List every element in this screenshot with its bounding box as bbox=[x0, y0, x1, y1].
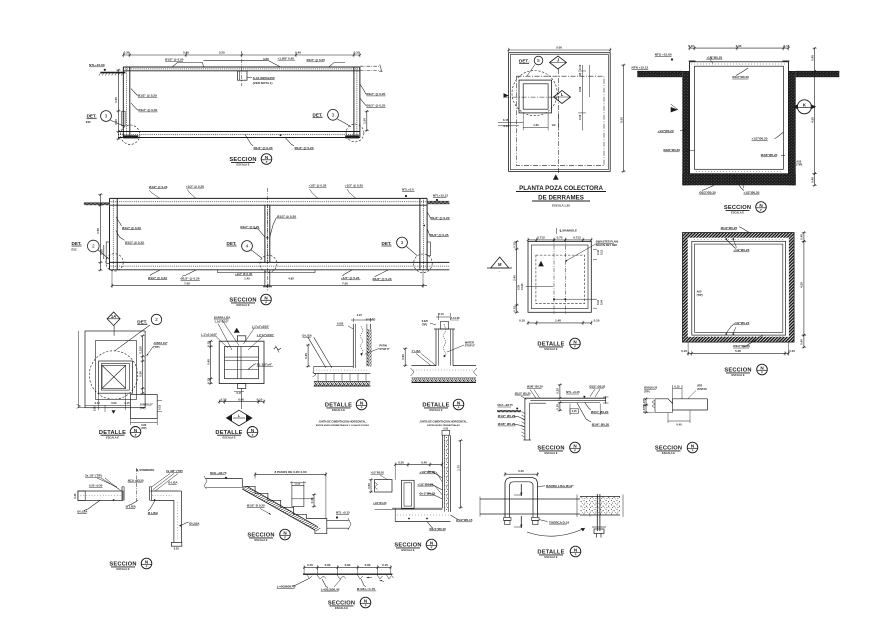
svg-text:Ø1/4" Ø0.20: Ø1/4" Ø0.20 bbox=[592, 422, 610, 426]
svg-text:0.15: 0.15 bbox=[674, 384, 680, 388]
svg-text:PLANTA POZA COLECTORA: PLANTA POZA COLECTORA bbox=[519, 185, 603, 192]
S16 staple nuts bbox=[504, 518, 512, 521]
S5 top dim bbox=[528, 239, 591, 241]
svg-text:BARRA LISA Ø1/2": BARRA LISA Ø1/2" bbox=[546, 484, 574, 488]
svg-text:ESCALA E: ESCALA E bbox=[254, 538, 267, 542]
svg-text:ESC: ESC bbox=[86, 121, 91, 124]
svg-text:+1/2"Ø0.20: +1/2"Ø0.20 bbox=[733, 248, 749, 252]
svg-text:Ø1/2" Ø0.20: Ø1/2" Ø0.20 bbox=[589, 384, 605, 388]
S15 left dims bbox=[645, 399, 647, 405]
svg-text:ENTRE MURO PERIMETRALES: ENTRE MURO PERIMETRALES bbox=[427, 424, 460, 427]
svg-text:0.30: 0.30 bbox=[517, 284, 521, 290]
svg-text:ESCALA E: ESCALA E bbox=[236, 303, 249, 307]
svg-text:(TIP): (TIP) bbox=[697, 293, 703, 297]
svg-text:ESCALA E: ESCALA E bbox=[662, 451, 675, 455]
svg-text:L: L bbox=[561, 92, 564, 97]
svg-text:A 14.05: A 14.05 bbox=[451, 316, 461, 320]
S8 right label PL bbox=[248, 364, 256, 370]
svg-text:1.20: 1.20 bbox=[533, 123, 539, 127]
svg-text:0.15: 0.15 bbox=[95, 401, 101, 405]
svg-text:0.15: 0.15 bbox=[357, 313, 363, 317]
svg-text:A05: A05 bbox=[697, 290, 702, 294]
S2 top slab bbox=[110, 197, 428, 199]
S4 right dim main bbox=[814, 71, 816, 173]
svg-text:+1/2"Ø0.25: +1/2"Ø0.25 bbox=[417, 482, 433, 486]
svg-text:Ø1/2" Ø0.25: Ø1/2" Ø0.25 bbox=[498, 414, 516, 418]
planta inner dash-dot square bbox=[517, 76, 605, 166]
svg-text:8 PASOS DE 0.20=1.60: 8 PASOS DE 0.20=1.60 bbox=[274, 470, 306, 474]
svg-text:+1/2" @ 0.20: +1/2" @ 0.20 bbox=[341, 276, 360, 280]
S16 inner arrows bbox=[520, 484, 522, 496]
svg-text:+1/2"Ø0.20: +1/2"Ø0.20 bbox=[658, 129, 674, 133]
S4 bottom rebar dots bbox=[734, 175, 736, 177]
S5 interior marker bbox=[538, 261, 544, 267]
S2 bottom slab bbox=[110, 261, 450, 263]
svg-text:1.40: 1.40 bbox=[555, 319, 561, 323]
svg-text:0.15: 0.15 bbox=[158, 404, 162, 410]
svg-text:+1/2"Ø0.20: +1/2"Ø0.20 bbox=[419, 470, 435, 474]
S11 right wall down bbox=[173, 500, 175, 542]
S9 slab-ground ticks bbox=[317, 374, 319, 382]
S10 wall cap bbox=[434, 328, 455, 330]
svg-text:0.60: 0.60 bbox=[325, 563, 331, 567]
S10 waterstop zigzag bbox=[443, 324, 446, 358]
svg-text:SEGUN DET. REF: SEGUN DET. REF bbox=[596, 243, 618, 247]
svg-text:7.05: 7.05 bbox=[342, 281, 348, 285]
svg-text:+1/2" @ 0.20: +1/2" @ 0.20 bbox=[186, 184, 204, 188]
svg-text:0.10: 0.10 bbox=[578, 64, 582, 70]
svg-text:Ø LISA: Ø LISA bbox=[168, 481, 177, 485]
svg-text:1.45: 1.45 bbox=[244, 276, 250, 280]
svg-text:DET.: DET. bbox=[313, 112, 323, 117]
svg-text:4: 4 bbox=[246, 244, 249, 250]
S11 right curb bbox=[148, 487, 150, 501]
svg-text:0.15: 0.15 bbox=[688, 44, 694, 48]
svg-text:0.10: 0.10 bbox=[438, 312, 444, 316]
svg-text:0.45: 0.45 bbox=[810, 55, 814, 61]
S12 top landing bbox=[206, 478, 243, 480]
svg-text:7.05: 7.05 bbox=[184, 281, 190, 285]
S9 waterstop zigzag bbox=[360, 326, 363, 357]
svg-text:+1/2" @ 0.20: +1/2" @ 0.20 bbox=[345, 184, 363, 188]
S16 staple inner bbox=[510, 482, 534, 518]
section marker diamond J bbox=[550, 56, 567, 69]
S4 top lining dots bbox=[691, 63, 787, 65]
S7 bottom-right attachment bbox=[131, 394, 158, 418]
S10 wall bbox=[435, 329, 437, 366]
S11 lisa leaders bottom bbox=[128, 500, 138, 505]
svg-text:0.25: 0.25 bbox=[556, 404, 560, 410]
svg-text:L 2"x2"x3/16": L 2"x2"x3/16" bbox=[257, 333, 275, 337]
S7 bottom attachment dim bbox=[131, 421, 158, 423]
svg-text:5.00: 5.00 bbox=[735, 349, 741, 353]
svg-text:5.40: 5.40 bbox=[183, 51, 189, 55]
S4 bottom slab hatch bbox=[682, 174, 795, 186]
S15 bottom dim bbox=[668, 420, 690, 422]
svg-text:0.20: 0.20 bbox=[174, 547, 180, 551]
svg-text:Ø1/2" Ø 0.20: Ø1/2" Ø 0.20 bbox=[247, 504, 265, 508]
svg-text:ESCALA E: ESCALA E bbox=[544, 347, 557, 351]
S7 left break line bbox=[78, 331, 80, 408]
svg-text:2x 1/2" (TIP): 2x 1/2" (TIP) bbox=[85, 474, 102, 478]
S12 sloped slab bbox=[247, 486, 318, 526]
svg-text:NTO +15.60: NTO +15.60 bbox=[655, 53, 672, 57]
svg-text:PL 3/8"x4": PL 3/8"x4" bbox=[257, 362, 273, 366]
seccion S1 top dimension line bbox=[123, 54, 360, 56]
svg-text:1.50: 1.50 bbox=[114, 97, 118, 103]
S1 lean concrete block right bbox=[345, 135, 359, 138]
section marker M triangle bbox=[491, 257, 509, 268]
svg-text:NCA +93.75: NCA +93.75 bbox=[498, 403, 514, 407]
S2 left vertical dim bbox=[99, 195, 101, 271]
S8 bottom dim bbox=[219, 401, 264, 403]
svg-text:0.45: 0.45 bbox=[304, 353, 308, 359]
S5 left dim bbox=[516, 242, 518, 313]
S13 rebar labels bbox=[428, 471, 442, 478]
svg-text:3.35: 3.35 bbox=[736, 44, 742, 48]
svg-text:0.15: 0.15 bbox=[207, 341, 211, 347]
S1 right wall rebar leader 1 bbox=[360, 84, 366, 94]
S1 bottom slab bbox=[118, 131, 360, 133]
svg-text:3.20: 3.20 bbox=[219, 51, 225, 55]
svg-text:ESCALA E: ESCALA E bbox=[429, 408, 442, 412]
svg-text:0.15: 0.15 bbox=[221, 397, 227, 401]
S14 left wall labels bbox=[514, 416, 525, 420]
svg-text:BARRA LISA: BARRA LISA bbox=[214, 315, 231, 319]
svg-text:+1/2"Ø0.20: +1/2"Ø0.20 bbox=[743, 190, 759, 194]
svg-text:Ø1/2" @ 0.20: Ø1/2" @ 0.20 bbox=[277, 214, 296, 218]
svg-text:Ø LISA: Ø LISA bbox=[77, 510, 88, 514]
S1 right vertical dim bbox=[366, 111, 368, 130]
S17 dim line bbox=[304, 566, 391, 568]
S4 right wall rebar labels bbox=[775, 132, 784, 139]
S1 dash-dot extension right bbox=[360, 65, 381, 67]
svg-text:A1/2"Ø0.15: A1/2"Ø0.15 bbox=[456, 518, 473, 522]
S14 ground left bbox=[497, 410, 521, 412]
svg-text:0.20: 0.20 bbox=[114, 119, 118, 125]
svg-text:DET.: DET. bbox=[382, 241, 392, 246]
S13 top nub bbox=[442, 430, 450, 435]
svg-text:1.50: 1.50 bbox=[363, 118, 367, 124]
S1 nozzle box bbox=[238, 71, 248, 80]
svg-text:Ø1/2" @ 0.20: Ø1/2" @ 0.20 bbox=[181, 277, 200, 281]
S6 hatched ring bbox=[683, 233, 795, 238]
S13 bottom slab bbox=[394, 508, 396, 521]
S6 right dim bbox=[803, 233, 805, 242]
S12 column stub bbox=[292, 485, 304, 506]
S17 hooks below bbox=[307, 575, 312, 579]
svg-text:2.40: 2.40 bbox=[513, 275, 517, 281]
section marker K bbox=[797, 100, 811, 114]
section marker diamond L bbox=[554, 91, 571, 104]
svg-text:(TIP): (TIP) bbox=[141, 427, 147, 430]
svg-text:Ø1/2" @ 0.20: Ø1/2" @ 0.20 bbox=[138, 93, 157, 97]
S8 right break symbol bbox=[274, 347, 281, 350]
S10 slab bbox=[412, 365, 437, 367]
S6 lining dot rows bbox=[694, 239, 784, 241]
svg-text:ESCALA E: ESCALA E bbox=[106, 435, 119, 439]
S1 right wall bbox=[353, 67, 355, 138]
S2 dashed circle right bbox=[414, 254, 433, 273]
S7 double square bbox=[99, 361, 133, 393]
svg-text:0.712: 0.712 bbox=[537, 236, 545, 240]
svg-text:0.45: 0.45 bbox=[310, 497, 314, 503]
svg-text:0.025: 0.025 bbox=[337, 323, 344, 326]
svg-text:JUNTA 1/2": JUNTA 1/2" bbox=[154, 341, 169, 345]
svg-text:5: 5 bbox=[537, 58, 540, 64]
svg-text:0.30: 0.30 bbox=[124, 51, 130, 55]
S12 slope hatch bbox=[242, 487, 247, 490]
svg-text:Ø1/2" @ 0.20: Ø1/2" @ 0.20 bbox=[165, 58, 184, 62]
svg-text:Ø1/2" @ 0.20: Ø1/2" @ 0.20 bbox=[295, 146, 314, 150]
svg-text:2: 2 bbox=[155, 317, 158, 323]
svg-text:0.40: 0.40 bbox=[596, 249, 600, 255]
svg-text:0.075: 0.075 bbox=[642, 398, 646, 406]
svg-text:0.15: 0.15 bbox=[784, 44, 790, 48]
S14 left wall bbox=[524, 398, 526, 440]
svg-text:Ø1/2" @ 0.25: Ø1/2" @ 0.25 bbox=[125, 240, 144, 244]
svg-text:0.15: 0.15 bbox=[382, 563, 388, 567]
svg-text:0.15: 0.15 bbox=[307, 563, 313, 567]
svg-text:Ø3/8"Ø0.20: Ø3/8"Ø0.20 bbox=[663, 148, 680, 152]
svg-text:ESCALA E: ESCALA E bbox=[731, 211, 744, 215]
S7 dashed circle bbox=[89, 351, 137, 399]
svg-text:NTL +0.15: NTL +0.15 bbox=[336, 511, 350, 515]
S1 lean concrete block left bbox=[123, 135, 138, 138]
svg-text:+1/2" @ 0.20: +1/2" @ 0.20 bbox=[309, 184, 327, 188]
S8 center line to diamond bbox=[240, 388, 242, 409]
planta top dim bbox=[509, 49, 611, 51]
svg-text:0.05: 0.05 bbox=[94, 406, 97, 411]
S2 left wall rebar leaders bbox=[116, 217, 122, 226]
svg-text:Ø1/2" @ 0.20: Ø1/2" @ 0.20 bbox=[148, 276, 167, 280]
S4 bottom lining dots bbox=[696, 171, 783, 173]
S11 sumidero centerline bbox=[135, 468, 137, 502]
svg-text:NCE +93.75: NCE +93.75 bbox=[210, 471, 227, 475]
S4 bottom labels bbox=[702, 185, 714, 190]
S11 right slab bbox=[150, 490, 178, 492]
S12 top dim bbox=[255, 473, 326, 475]
S2 bottom dimension line bbox=[112, 285, 427, 287]
S7 X square bbox=[102, 365, 126, 388]
svg-text:NTL +0.15: NTL +0.15 bbox=[566, 390, 580, 394]
svg-text:L=Ø3/8Ø0.45: L=Ø3/8Ø0.45 bbox=[277, 585, 296, 589]
svg-text:(VER NOTA 1): (VER NOTA 1) bbox=[253, 81, 273, 85]
S4 tank lining bbox=[690, 62, 789, 174]
svg-text:0.70: 0.70 bbox=[557, 236, 563, 240]
svg-text:Ø3/8" Ø0.20: Ø3/8" Ø0.20 bbox=[527, 385, 543, 389]
S13 left block bbox=[375, 480, 393, 493]
svg-text:1A: 1A bbox=[111, 314, 116, 319]
svg-text:2: 2 bbox=[92, 244, 95, 250]
svg-text:DET.: DET. bbox=[72, 241, 82, 246]
svg-text:℄ MANHOLE: ℄ MANHOLE bbox=[559, 228, 577, 232]
S2 middle wall bbox=[264, 205, 266, 262]
S2 dashed circle left bbox=[106, 254, 123, 271]
svg-text:Ø1/2" @ 0.20: Ø1/2" @ 0.20 bbox=[240, 225, 259, 229]
S16 concrete block bbox=[580, 497, 620, 516]
svg-text:0.20: 0.20 bbox=[398, 460, 404, 464]
svg-text:0.45: 0.45 bbox=[810, 177, 814, 183]
svg-text:1' LISA: 1' LISA bbox=[412, 349, 421, 353]
planta pit square bbox=[519, 80, 552, 113]
S4 right dim top bbox=[814, 48, 816, 71]
svg-text:0.15: 0.15 bbox=[257, 397, 263, 401]
svg-text:ESCALA 1:25: ESCALA 1:25 bbox=[552, 204, 570, 208]
S13 inner pit box bbox=[402, 480, 415, 508]
S16 curved arrow bbox=[527, 528, 585, 536]
S1 top slab bbox=[123, 66, 360, 68]
svg-text:0.15: 0.15 bbox=[503, 118, 509, 122]
svg-text:1/3: 1/3 bbox=[552, 123, 556, 127]
S8 interior grid bbox=[225, 356, 259, 358]
svg-text:1.50: 1.50 bbox=[96, 228, 100, 234]
S1 dashed circle right corner bbox=[346, 124, 364, 142]
svg-text:5.00: 5.00 bbox=[619, 117, 623, 123]
svg-text:3: 3 bbox=[332, 113, 335, 119]
S1 ground line left bbox=[100, 72, 125, 74]
svg-text:NTL+15.60: NTL+15.60 bbox=[89, 63, 105, 67]
svg-text:L 1"x1"x3/16": L 1"x1"x3/16" bbox=[252, 324, 270, 328]
S4 right dim bottom bbox=[814, 174, 816, 186]
svg-text:Ø(MASTER PLAN): Ø(MASTER PLAN) bbox=[596, 240, 619, 244]
svg-text:Ø1/2" @ 0.25: Ø1/2" @ 0.25 bbox=[430, 233, 449, 237]
S5 bottom dim bbox=[528, 322, 591, 324]
S2 ground band right bbox=[427, 201, 449, 204]
S4 ground band right bbox=[796, 71, 840, 77]
S6 inner lining bbox=[692, 241, 786, 335]
svg-text:JUNTAS: JUNTAS bbox=[697, 388, 707, 391]
S7 right vertical dim bbox=[142, 336, 144, 393]
svg-text:Ø1/2" @ 0.20: Ø1/2" @ 0.20 bbox=[254, 146, 273, 150]
S14 right lower labels bbox=[585, 402, 591, 410]
svg-text:Ø1/2" @ 0.20: Ø1/2" @ 0.20 bbox=[122, 226, 141, 230]
svg-text:ESCALA E: ESCALA E bbox=[332, 408, 345, 412]
svg-text:0.125: 0.125 bbox=[520, 283, 524, 290]
S9 diagonal leaders bbox=[314, 337, 332, 368]
svg-text:1.70: 1.70 bbox=[456, 465, 460, 471]
svg-text:4.85: 4.85 bbox=[288, 276, 294, 280]
svg-text:0.40: 0.40 bbox=[676, 423, 682, 427]
svg-text:0.60: 0.60 bbox=[367, 483, 371, 489]
svg-text:(TIP): (TIP) bbox=[140, 406, 146, 410]
S1 left wall rebar leader 2 bbox=[131, 103, 138, 110]
svg-text:Ø LISA: Ø LISA bbox=[189, 521, 200, 525]
S13 bottom label bbox=[427, 522, 433, 529]
svg-text:0.15: 0.15 bbox=[207, 378, 211, 384]
S1 centerline bbox=[241, 51, 243, 86]
svg-text:Ø VARD: Ø VARD bbox=[366, 319, 376, 322]
S8 top tab bbox=[237, 336, 245, 341]
svg-text:+1/2"Ø0.20: +1/2"Ø0.20 bbox=[706, 55, 722, 59]
svg-text:0.225: 0.225 bbox=[138, 346, 142, 354]
svg-text:0.60: 0.60 bbox=[401, 354, 405, 360]
S8 left vertical dim bbox=[210, 341, 212, 383]
svg-text:+1/2"Ø0.20: +1/2"Ø0.20 bbox=[371, 471, 385, 475]
S6 inner top rebar label bbox=[725, 238, 727, 240]
svg-text:0.15: 0.15 bbox=[124, 401, 130, 405]
svg-text:S-01 Ø250x250: S-01 Ø250x250 bbox=[253, 76, 275, 80]
S2 ground band left bbox=[84, 202, 110, 205]
svg-text:Ø1/2" @ 0.20: Ø1/2" @ 0.20 bbox=[373, 277, 392, 281]
S4 inner top rebar label bbox=[736, 68, 748, 76]
svg-text:+1/2"Ø0.20: +1/2"Ø0.20 bbox=[752, 137, 768, 141]
svg-text:0.15: 0.15 bbox=[681, 349, 687, 353]
S6 bottom dim bbox=[688, 352, 788, 354]
S7 outer rectangle bbox=[85, 331, 145, 408]
S2 left wall bbox=[109, 198, 111, 269]
S9 break left bbox=[313, 372, 317, 377]
S9 ground speckle band bbox=[314, 381, 371, 386]
svg-text:0.04: 0.04 bbox=[600, 299, 604, 305]
svg-text:ESCALA E: ESCALA E bbox=[335, 606, 348, 610]
planta right dim line bbox=[623, 65, 625, 171]
S1 right wall rebar leader 2 bbox=[360, 98, 366, 106]
svg-text:0.40: 0.40 bbox=[421, 460, 427, 464]
svg-text:ESC: ESC bbox=[72, 248, 77, 251]
S14 below slab dims bbox=[570, 409, 579, 413]
svg-text:0.45: 0.45 bbox=[800, 234, 804, 240]
svg-text:M: M bbox=[498, 262, 502, 267]
svg-text:3.10: 3.10 bbox=[578, 114, 582, 120]
svg-text:0.12: 0.12 bbox=[600, 249, 604, 255]
S2 middle wall rebar leaders bbox=[270, 217, 277, 237]
S4 left wall rebar label bbox=[680, 129, 690, 131]
S15 profile bbox=[655, 399, 708, 404]
S4 ground band left bbox=[637, 71, 682, 77]
svg-text:ESCALA E: ESCALA E bbox=[401, 548, 414, 552]
S11 lisa leader wall bbox=[180, 525, 182, 527]
S8 main square bbox=[219, 341, 264, 383]
svg-text:ESCALA E: ESCALA E bbox=[116, 567, 129, 571]
S1 dashed circle left corner bbox=[121, 125, 140, 144]
S1 left wall rebar leader 1 bbox=[131, 89, 138, 96]
svg-text:0.45: 0.45 bbox=[207, 359, 211, 365]
S10 left dim bbox=[404, 349, 406, 366]
S2 bottom center dim bracket bbox=[218, 270, 316, 273]
svg-text:Ø LISA: Ø LISA bbox=[148, 511, 159, 515]
S10 breaks bbox=[411, 368, 415, 376]
S13 bottom-right label bbox=[450, 515, 459, 520]
S9 left vertical dim bbox=[307, 345, 309, 366]
planta inner dims right bbox=[582, 65, 584, 130]
svg-text:L 1"x1"x1/8": L 1"x1"x1/8" bbox=[201, 332, 218, 336]
svg-text:1,1/2"Ø1/2": 1,1/2"Ø1/2" bbox=[214, 319, 229, 323]
svg-text:Ø1/2" @ 0.20: Ø1/2" @ 0.20 bbox=[149, 185, 168, 189]
svg-text:0.30: 0.30 bbox=[354, 51, 360, 55]
S16 anchor rod bbox=[596, 494, 598, 531]
S8 diamond marker bbox=[227, 410, 252, 426]
S5 outer square bbox=[528, 242, 591, 313]
svg-text:0.15: 0.15 bbox=[789, 349, 795, 353]
svg-text:0.15: 0.15 bbox=[295, 481, 301, 485]
S12 steps bbox=[242, 479, 317, 519]
svg-text:+1/2" Ø 0.45: +1/2" Ø 0.45 bbox=[235, 272, 253, 276]
svg-text:0.10: 0.10 bbox=[519, 319, 525, 323]
svg-text:DE DERRAMES: DE DERRAMES bbox=[538, 194, 584, 201]
svg-text:Ø+3"Ø0.25: Ø+3"Ø0.25 bbox=[419, 491, 435, 495]
S11 left slab bbox=[78, 491, 123, 500]
S13 wall speckle bbox=[444, 436, 448, 511]
S2 right pilaster bbox=[427, 242, 430, 256]
svg-text:JUNTA DE CIMENTACION HORIZONTA: JUNTA DE CIMENTACION HORIZONTAL, bbox=[319, 420, 367, 423]
svg-text:NTL+0.0: NTL+0.0 bbox=[402, 188, 414, 192]
S4 left arrow bbox=[671, 107, 678, 112]
svg-text:0.25: 0.25 bbox=[572, 410, 577, 413]
svg-text:2x 3/8" (TIP): 2x 3/8" (TIP) bbox=[166, 469, 183, 473]
S9 slab bbox=[314, 365, 354, 367]
svg-text:Ø3/4" Ø0.20: Ø3/4" Ø0.20 bbox=[591, 410, 609, 414]
